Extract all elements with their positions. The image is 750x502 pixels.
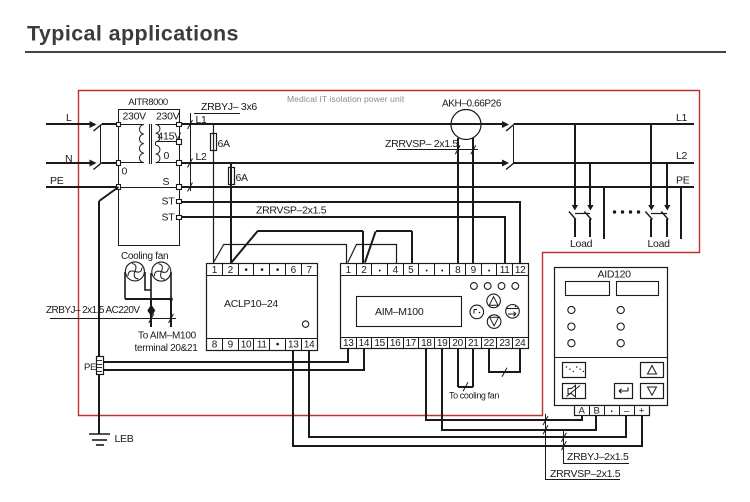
svg-text:ZRRVSP– 2x1.5: ZRRVSP– 2x1.5 [385,138,458,150]
CT secondary lead S2 to AIM terminal 9 [472,138,474,264]
terminal PE at box [117,185,121,190]
wire PE diagonal to earth riser [99,187,118,201]
red enclosure border of isolation power unit [78,91,700,416]
terminal secondary 415V tap [177,140,182,145]
svg-text:Load: Load [648,238,671,250]
svg-text:4: 4 [393,265,399,276]
fan M2 body [152,262,171,281]
svg-text:PE: PE [84,362,96,373]
load feeder 1 PE drop [603,187,605,239]
wire ACLP-13 to AID120 plus [293,350,642,446]
AID terminal strip [575,406,650,416]
wire ST upper to AIM terminal 12 [182,202,521,264]
fan M2 lead right [170,272,172,299]
switch QS2 pole L2 blade [506,163,515,170]
wire ACLP-14 to AID120 minus [309,350,626,437]
svg-text:LEB: LEB [115,433,134,445]
svg-text:8: 8 [455,265,461,276]
switch QS2 linkage [513,126,515,164]
wire AIM-20 to cooling fan [457,348,459,387]
transformer tap 415V stub [156,141,179,143]
svg-text:17: 17 [406,338,417,349]
terminal primary N [117,161,121,166]
wire AIM-13 to PE busbar [103,349,348,363]
svg-text:6A: 6A [218,138,231,150]
title underline rule [25,51,726,53]
jumper AIM-20 to AIM-21 [458,386,473,388]
svg-text:ZRRVSP–2x1.5: ZRRVSP–2x1.5 [550,468,621,480]
svg-text:L1: L1 [196,114,208,126]
cable marker ZRBYJ-2x1.5 on supply pair [563,431,565,463]
svg-text:•: • [611,410,613,416]
AID enter button [615,384,633,399]
wire S inside box [118,187,179,189]
fan M1 lead right with jog [145,272,151,290]
ACLP bottom terminal row [206,338,317,340]
transformer secondary winding lower [155,142,157,145]
svg-text:ZRBYJ– 2x1.5 AC220V: ZRBYJ– 2x1.5 AC220V [46,305,140,316]
switch QS1 pole N blade [94,163,103,170]
svg-text:14: 14 [304,340,315,351]
svg-text:15: 15 [374,338,385,349]
svg-text:9: 9 [471,265,477,276]
AID display window right [617,282,659,296]
AIM enter button [506,305,520,319]
AC220V feed diamond [147,305,155,317]
load feeder 2 breaker tie bar [651,213,667,215]
svg-text:6: 6 [291,265,297,276]
switch QS1 pole L arrow [90,121,97,128]
wire L1 branch to ACLP-1 and AIM-1 AIM-4 [214,244,225,263]
wire L2 branch to ACLP-2 and AIM-2 AIM-5 [231,231,258,263]
wire PE incoming [46,186,118,188]
svg-text:5: 5 [408,265,414,276]
terminal S [177,185,182,190]
switch QS2 pole L1 blade [506,124,515,131]
wire AIM-14 to PE busbar [103,349,364,371]
svg-text:1: 1 [346,265,352,276]
cable marker line on fan supply pair [50,318,176,320]
svg-text:PE: PE [50,175,64,187]
terminal secondary 0 [177,161,182,166]
svg-text:AITR8000: AITR8000 [128,97,168,108]
AID down button [641,384,664,399]
wire N to transformer [102,162,118,164]
switch QS1 pole L blade [94,124,103,131]
AIM down button [487,315,501,329]
junction dot fan bar [169,297,173,301]
module U1 ACLP10-24 box [207,264,318,351]
fan M2 blades [154,264,168,280]
fuse F1 6A wire [213,124,215,264]
svg-text:230V: 230V [123,111,147,123]
svg-text:ZRRVSP–2x1.5: ZRRVSP–2x1.5 [256,205,327,217]
transformer primary winding [119,124,144,126]
fan M1 body [125,262,144,281]
wire N incoming [46,162,90,164]
svg-text:23: 23 [499,338,510,349]
svg-text:0: 0 [122,166,128,178]
svg-text:22: 22 [484,338,495,349]
svg-text:AIM–M100: AIM–M100 [375,306,424,318]
load feeder 1 breaker pole L1 [574,124,576,206]
svg-text:A: A [578,406,585,417]
switch QS1 linkage [100,126,102,164]
svg-text:6A: 6A [236,172,249,184]
svg-text:AID120: AID120 [598,269,632,281]
terminal ST lower [177,216,182,220]
fuse F2 6A wire [230,163,232,264]
AIM display window [357,297,462,327]
svg-text:19: 19 [437,338,448,349]
svg-text:14: 14 [359,338,370,349]
svg-text:1: 1 [212,265,218,276]
AIM top terminal row [340,275,528,277]
svg-text:2: 2 [228,265,234,276]
svg-text:13: 13 [343,338,354,349]
wire AIM-21 to cooling fan [472,348,474,387]
svg-text:L2: L2 [196,151,208,163]
svg-text:AKH–0.66P26: AKH–0.66P26 [442,99,502,110]
svg-text:16: 16 [390,338,401,349]
ACLP top terminal row [206,275,317,277]
svg-text:+: + [639,406,645,417]
svg-text:ST: ST [162,196,176,208]
svg-text:terminal 20&21: terminal 20&21 [135,343,199,354]
svg-text:230V: 230V [156,111,180,123]
svg-text:9: 9 [228,340,234,351]
svg-text:18: 18 [421,338,432,349]
transformer T1 box [119,110,180,246]
svg-text:B: B [593,406,599,417]
load feeder 2 breaker pole L1 [650,124,652,206]
svg-text:S: S [163,176,170,188]
svg-text:21: 21 [468,338,479,349]
fan M1 blades [128,264,142,280]
svg-text:11: 11 [500,265,511,276]
switch QS2 pole L2 arrow [502,160,509,167]
svg-text:13: 13 [288,340,299,351]
svg-text:L1: L1 [676,112,688,124]
fuse F2 6A body [229,168,235,185]
transformer secondary winding upper [156,124,179,126]
svg-text:8: 8 [212,340,218,351]
cable marker ZRRVSP-2x1.5 on RS485 pair [545,414,547,479]
current transformer CT1 [451,110,481,140]
svg-text:7: 7 [306,265,312,276]
AID display window left [566,282,610,296]
svg-text:PE: PE [676,175,690,187]
terminal primary L [117,123,121,127]
AIM up button [487,294,501,308]
AID mute button [563,384,586,399]
svg-text:Load: Load [570,238,593,250]
jumper AIM-22 to AIM-24 [489,349,520,373]
svg-text:Cooling fan: Cooling fan [121,251,168,262]
transformer core [149,124,151,164]
AID test button [563,363,586,378]
switch QS2 pole L1 arrow [502,121,509,128]
AID panel divider [554,357,667,359]
svg-text:20: 20 [452,338,463,349]
load feeder 1 breaker pole L2 [589,163,591,206]
wire L1 bus [182,123,505,125]
ground symbol LEB [89,433,110,435]
svg-text:Typical applications: Typical applications [27,22,239,46]
ellipsis more feeders [613,210,616,213]
fan M1 lead left [124,272,126,299]
svg-text:Medical IT isolation power uni: Medical IT isolation power unit [287,94,405,104]
fan supply bar [125,298,171,300]
remote indicator AID120 box [555,268,668,406]
fan M2 lead left [150,273,152,299]
svg-text:12: 12 [515,265,526,276]
wire PE earth riser [98,201,100,434]
AIM indicator LEDs [471,283,478,290]
module U2 AIM-M100 box [341,264,529,349]
svg-text:L: L [66,112,72,124]
wire ST lower to AIM terminal 11 [182,217,506,264]
load feeder 2 PE drop [680,187,682,239]
wire fan supply right drop [170,299,172,327]
svg-text:10: 10 [241,340,252,351]
AIM back button [470,305,484,319]
wire L incoming [46,123,90,125]
terminal secondary 230V [177,123,182,127]
svg-text:24: 24 [515,338,526,349]
svg-text:ACLP10–24: ACLP10–24 [224,298,278,310]
ACLP indicator circle [302,321,308,327]
svg-text:ZRBYJ–2x1.5: ZRBYJ–2x1.5 [567,451,629,463]
svg-text:ST: ST [162,212,176,224]
switch QS1 pole N arrow [90,160,97,167]
svg-text:ZRBYJ– 3x6: ZRBYJ– 3x6 [201,101,257,113]
CT secondary lead S1 to AIM terminal 8 [457,138,459,264]
wire fan supply left drop [150,299,152,327]
wire PE bus [182,186,694,188]
wire AIM-19 RS485 B to AID120 [442,349,596,431]
svg-text:L2: L2 [676,150,688,162]
PE equipotential busbar [97,357,104,375]
AID up button [641,363,664,378]
AID indicator LEDs [568,306,575,313]
load feeder 1 breaker tie bar [575,213,590,215]
wire L to transformer [102,123,118,125]
fuse F1 6A body [211,134,217,151]
svg-text:0: 0 [164,150,170,162]
svg-text:To cooling fan: To cooling fan [449,391,499,401]
svg-text:To AIM–M100: To AIM–M100 [138,331,197,342]
terminal ST upper [177,200,182,204]
wire L2 bus [182,162,505,164]
svg-text:11: 11 [257,340,268,351]
load feeder 2 breaker pole L2 [666,163,668,206]
svg-text:2: 2 [361,265,367,276]
AIM bottom terminal row [340,337,528,339]
wire AIM-18 RS485 A to AID120 [426,349,582,421]
